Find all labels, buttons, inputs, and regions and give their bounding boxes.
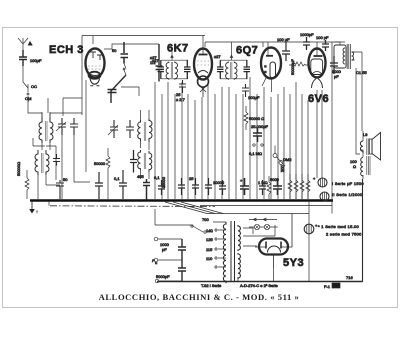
capacitor right of L2 xyxy=(53,154,60,166)
caps right of 6Q7 top xyxy=(277,37,290,61)
ground xyxy=(29,201,38,214)
svg-text:50000 Ω: 50000 Ω xyxy=(249,116,264,121)
transformer taps xyxy=(206,222,226,268)
svg-text:I Serie µF 1500: I Serie µF 1500 xyxy=(332,181,364,186)
caps at pickup xyxy=(178,239,186,281)
capacitor x159 xyxy=(152,44,163,82)
mains switch xyxy=(155,209,213,233)
schematic wiring group xyxy=(16,32,381,289)
svg-text:±27: ±27 xyxy=(214,54,221,59)
svg-text:2 serie mod 7500: 2 serie mod 7500 xyxy=(326,232,362,237)
antenna coil L1 xyxy=(39,112,53,150)
tube 6K7 xyxy=(194,49,212,98)
cap 3000pF xyxy=(330,56,342,79)
svg-text:u: u xyxy=(155,260,157,265)
svg-text:115: 115 xyxy=(206,247,213,252)
resistor 50000 vertical label left xyxy=(16,162,29,199)
cap row left of center xyxy=(95,170,127,199)
trimmer caps right of L1 xyxy=(56,118,78,135)
wire top 6V6 xyxy=(263,41,345,43)
tube 6Q7 xyxy=(261,42,281,92)
svg-text:OM: OM xyxy=(25,96,31,101)
capacitor 50pF left-bottom xyxy=(56,177,68,199)
svg-text:50000Ω: 50000Ω xyxy=(16,162,21,176)
svg-text:± 2.7: ± 2.7 xyxy=(176,97,186,102)
svg-text:1 MΩ: 1 MΩ xyxy=(258,180,268,185)
chassis dash-dot line xyxy=(50,205,215,208)
vertical wires from left top to bus xyxy=(63,80,182,199)
tube 6V6 xyxy=(309,42,326,100)
wire antenna down xyxy=(23,66,28,88)
svg-text:5000: 5000 xyxy=(270,177,280,182)
svg-text:50: 50 xyxy=(63,177,68,182)
svg-text:L9: L9 xyxy=(363,132,368,137)
pickup terminals left xyxy=(152,237,182,283)
cap 100uF under T2 xyxy=(242,84,260,100)
electrolytic cap pair right xyxy=(313,176,329,201)
svg-text:ALLOCCHIO, BACCHINI & C. - MOD: ALLOCCHIO, BACCHINI & C. - MOD. « 511 » xyxy=(99,292,300,302)
svg-text:T.82 I Serie: T.82 I Serie xyxy=(201,283,222,288)
svg-text:1/2: 1/2 xyxy=(150,60,156,65)
svg-text:25: 25 xyxy=(189,176,194,181)
tube 5Y3 xyxy=(255,214,292,268)
wire 6K7 to 6Q7 top xyxy=(205,42,263,47)
coil L2 lower-left xyxy=(35,150,60,199)
resistor 50000 under 6Q7 xyxy=(244,106,269,130)
cap under T1 xyxy=(176,80,186,102)
junction dots on bus xyxy=(37,199,331,201)
switch OC/OM xyxy=(25,84,37,101)
resistors right group xyxy=(280,165,310,199)
wire transformer bottom to 5Y3 xyxy=(226,267,274,282)
IF transformer T2 xyxy=(214,42,250,80)
resistor mid-left xyxy=(94,148,137,199)
top wire ECH3 to 6K7 xyxy=(202,36,204,50)
svg-text:300: 300 xyxy=(280,165,285,172)
svg-text:50000µF: 50000µF xyxy=(290,59,295,75)
svg-text:DM2: DM2 xyxy=(283,157,292,162)
wire to antenna coil xyxy=(28,98,82,118)
coil L4 below oscillator xyxy=(137,150,166,200)
svg-text:110: 110 xyxy=(206,256,213,261)
svg-text:6V6: 6V6 xyxy=(308,93,329,105)
ground bus xyxy=(30,199,333,202)
svg-text:455: 455 xyxy=(137,174,144,179)
electrolytic bottom xyxy=(304,223,318,234)
switch segment mid-left xyxy=(108,64,140,104)
grid cap wires ECH3 xyxy=(93,36,159,50)
power transformer xyxy=(223,221,240,283)
svg-text:716: 716 xyxy=(346,275,353,280)
svg-text:F-1: F-1 xyxy=(324,284,331,289)
svg-text:140: 140 xyxy=(206,228,213,233)
speaker xyxy=(360,131,380,160)
svg-text:6K7: 6K7 xyxy=(167,43,189,55)
svg-text:5Y3: 5Y3 xyxy=(283,257,304,269)
pilot lamps xyxy=(249,218,278,230)
fuse F-1 xyxy=(324,283,340,289)
svg-text:A-D-274-C e 2ª Serie: A-D-274-C e 2ª Serie xyxy=(240,283,278,288)
svg-text:0,1 MΩ: 0,1 MΩ xyxy=(249,151,262,156)
svg-text:1000pF: 1000pF xyxy=(300,32,314,37)
capacitor near ECH3 right xyxy=(112,42,128,64)
wire branches left coils xyxy=(33,138,56,180)
svg-text:0,1: 0,1 xyxy=(114,176,120,181)
svg-text:50000: 50000 xyxy=(94,161,106,166)
svg-text:0,1: 0,1 xyxy=(154,175,160,180)
heater wires xyxy=(243,225,275,246)
svg-text:10000: 10000 xyxy=(213,180,225,185)
svg-text:pF: pF xyxy=(334,74,339,79)
bottom dark line xyxy=(157,281,362,283)
IF transformer T1 xyxy=(150,50,191,80)
capacitor C-ant 100pF xyxy=(19,50,42,66)
right vertical wires to speaker xyxy=(356,52,362,154)
oscillator coil L3 xyxy=(138,110,152,150)
tube ECH3 xyxy=(86,49,105,86)
component row above bus: caps and resistors xyxy=(154,175,282,199)
svg-text:* 1 Serie mod 15.00: * 1 Serie mod 15.00 xyxy=(318,224,360,229)
vertical wires center top to bus xyxy=(188,42,332,214)
svg-text:6Q7: 6Q7 xyxy=(236,45,258,57)
svg-text:100 µF: 100 µF xyxy=(277,37,290,42)
svg-text:25.000µF: 25.000µF xyxy=(251,124,269,129)
right vertical from ecap down xyxy=(308,201,310,282)
node A wiring top-left box xyxy=(63,36,205,117)
svg-text:125: 125 xyxy=(206,237,213,242)
cap dark under 6Q7 xyxy=(249,128,263,156)
svg-text:700: 700 xyxy=(202,217,209,222)
svg-text:OC: OC xyxy=(31,84,37,89)
antenna xyxy=(18,38,32,50)
svg-text:50: 50 xyxy=(112,48,117,53)
svg-text:pF: pF xyxy=(162,247,167,252)
svg-text:ECH 3: ECH 3 xyxy=(49,44,84,56)
field coil 100ohm xyxy=(350,150,370,179)
wire field coil down xyxy=(362,179,364,282)
output transformer xyxy=(334,42,362,69)
svg-text:Ω: Ω xyxy=(353,164,356,169)
switch contacts DM xyxy=(273,146,292,173)
wire pickup joins xyxy=(181,239,183,260)
svg-text:100 pF: 100 pF xyxy=(316,35,329,40)
svg-text:5000pF: 5000pF xyxy=(156,274,170,279)
svg-text:II Serie 1/2000: II Serie 1/2000 xyxy=(332,192,363,197)
diagonal wires to transformer xyxy=(165,202,223,214)
svg-text:100µF: 100µF xyxy=(30,58,42,63)
top caps before 6V6 xyxy=(300,32,329,51)
resistor 50000 horizontal near 6V6 grid xyxy=(289,59,309,75)
padder caps left of L3 xyxy=(108,120,134,138)
